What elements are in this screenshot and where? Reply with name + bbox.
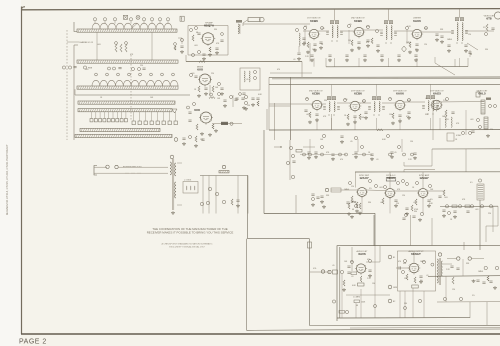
svg-text:68: 68: [352, 201, 354, 203]
svg-text:.001: .001: [191, 73, 195, 75]
svg-text:.01: .01: [357, 47, 360, 49]
svg-text:1MEG: 1MEG: [344, 189, 350, 191]
svg-text:.01: .01: [376, 159, 379, 161]
svg-text:6K6GT: 6K6GT: [411, 252, 421, 256]
V6 components: [309, 112, 311, 118]
svg-text:5%: 5%: [430, 199, 433, 201]
svg-text:6BQ7A: 6BQ7A: [204, 24, 215, 28]
wire bar1 to bar2: [96, 32, 98, 60]
RF plate coil label: [236, 20, 242, 23]
audio bottom circles row: [374, 305, 377, 308]
svg-text:68: 68: [352, 209, 354, 211]
svg-text:4.5: 4.5: [470, 182, 473, 184]
svg-text:5%: 5%: [415, 49, 418, 51]
input bus drop wires: [202, 176, 204, 214]
under-sync components middle: [351, 201, 353, 203]
antenna wire to T1: [118, 166, 168, 168]
V14 parts: [404, 260, 407, 263]
IF transformer T-B: [386, 26, 387, 40]
row2 left input wire: [269, 103, 286, 105]
audio inner box: [398, 251, 436, 291]
screen bus: [326, 66, 468, 68]
T1 secondary wires: [177, 162, 182, 164]
phase circle on coil row: [136, 15, 140, 19]
svg-text:PAGE 2: PAGE 2: [19, 339, 47, 346]
audio interior verticals: [341, 274, 343, 318]
row2 rail jogs: [289, 130, 291, 140]
svg-text:68: 68: [306, 98, 308, 100]
trimmer box on coil row: [124, 15, 128, 19]
T-C bottom caps: [447, 44, 450, 46]
V13 parts: [360, 276, 362, 282]
svg-text:.05: .05: [332, 265, 335, 267]
interstage parts row1: [376, 30, 379, 33]
coupling cap mid: [398, 266, 400, 269]
tube V3 6CB6: [309, 29, 318, 38]
svg-text:150: 150: [247, 105, 250, 107]
svg-text:6CB6: 6CB6: [312, 92, 320, 96]
V5 diamond: [402, 46, 407, 52]
svg-text:150: 150: [348, 40, 351, 42]
wire V5 plate to T-C: [422, 31, 454, 33]
audio output grid wire: [396, 267, 410, 269]
T2 designator: [438, 253, 441, 256]
dark value label 47K: [486, 98, 491, 100]
svg-text:6U8: 6U8: [194, 108, 200, 112]
decoupling row y154 parts: [303, 153, 306, 156]
V1 cathode components: [209, 47, 211, 52]
V5 components: [409, 42, 411, 48]
sync row left cluster: [325, 188, 328, 191]
antenna terminals: [106, 165, 109, 168]
svg-text:6BA6: 6BA6: [387, 176, 395, 180]
svg-text:120: 120: [424, 44, 427, 46]
RF input parts at tuner edge: [181, 39, 184, 42]
edge component at return rail: [308, 242, 312, 248]
input transformer T1 primary: [170, 162, 171, 175]
svg-text:.003: .003: [194, 45, 198, 47]
svg-text:470: 470: [277, 69, 280, 71]
speaker output wire: [447, 258, 457, 260]
svg-text:330: 330: [404, 303, 407, 305]
svg-text:1MEG: 1MEG: [478, 271, 484, 273]
svg-text:.05: .05: [350, 141, 353, 143]
row1 ground rail: [325, 58, 327, 67]
svg-text:5%: 5%: [420, 280, 423, 282]
B+ bus lower: [269, 83, 500, 85]
audio input wire: [310, 271, 330, 273]
row2 lower caps: [314, 151, 317, 153]
wire T-C to det: [465, 30, 494, 32]
svg-text:150: 150: [389, 114, 392, 116]
tube V6 6CB6: [312, 100, 321, 109]
mid horizontal bus: [264, 212, 375, 214]
bar2 lower components: [108, 67, 111, 70]
bus corner link: [301, 62, 303, 78]
sync row grid wires: [331, 189, 358, 191]
sync row left input parts: [311, 193, 314, 195]
antenna plug paddle: [248, 18, 260, 22]
osc top caps: [235, 97, 238, 99]
volume line down: [479, 200, 481, 250]
tube V1 6BQ7A: [202, 33, 214, 45]
tuner chassis bar 4: [78, 101, 175, 104]
audio feed verticals: [373, 215, 375, 246]
row1 stage B+ drops: [313, 58, 315, 67]
sync row plate drops: [361, 197, 363, 213]
agc line parts near x403-435: [405, 214, 408, 217]
osc fine tune cap: [242, 92, 245, 94]
tube V4 6CB6: [354, 27, 363, 36]
IF transformer T-C: [457, 23, 458, 41]
oscillator coil terminals: [95, 73, 98, 76]
det load column upper: [481, 100, 485, 114]
svg-text:6AG5: 6AG5: [433, 92, 441, 96]
svg-text:470: 470: [406, 116, 409, 118]
V3 screen cap: [319, 41, 322, 43]
svg-text:6CB6: 6CB6: [354, 19, 362, 23]
disc row caps: [442, 209, 445, 211]
tuner shield left rail: [73, 45, 75, 140]
fine tuning terminals: [62, 66, 65, 69]
osc plate feed resistor: [209, 97, 215, 99]
svg-text:1MEG: 1MEG: [406, 42, 412, 44]
svg-text:220: 220: [396, 203, 399, 205]
lightning arrestor box: [183, 182, 198, 194]
under row resistor cluster x348-363: [354, 201, 356, 203]
RF plate winding: [238, 24, 239, 34]
tube V13: [356, 264, 365, 273]
svg-text:6CB6: 6CB6: [310, 19, 318, 23]
tube V9 6AG5: [432, 100, 442, 110]
svg-text:120: 120: [468, 34, 471, 36]
audio right-edge wires: [443, 263, 452, 265]
tube V11: [386, 189, 395, 198]
1st IF input coil column: [299, 33, 300, 46]
svg-text:220: 220: [211, 73, 214, 75]
svg-text:4.5MC: 4.5MC: [456, 135, 462, 137]
antenna coil strip L1 terminals: [93, 18, 96, 21]
rotor wiper triangle: [172, 109, 177, 113]
wire bar3 junction rail: [75, 94, 190, 96]
sound section tick: [463, 242, 465, 250]
V1 grid components: [190, 29, 193, 32]
audio B+ wire: [428, 275, 500, 278]
fine tuning dashed link: [130, 55, 132, 120]
svg-text:VOL: VOL: [313, 268, 317, 270]
det components: [486, 24, 488, 31]
svg-text:B2: B2: [393, 301, 395, 303]
svg-text:330: 330: [214, 29, 217, 31]
IF transformer T-A: [332, 26, 333, 38]
wire paddle to RF plate: [243, 20, 248, 26]
V2b grid parts: [188, 111, 191, 113]
svg-text:B1: B1: [393, 257, 395, 259]
discriminator output row: [440, 205, 498, 207]
tuner dashed enclosure: [66, 30, 68, 140]
wire V4 plate to T-B: [364, 29, 383, 31]
link from row2 down: [295, 195, 297, 213]
svg-text:6U8: 6U8: [197, 68, 203, 72]
lower-left return rail: [247, 176, 249, 239]
tube V8 6AU6: [395, 100, 404, 109]
svg-text:220: 220: [140, 65, 143, 67]
agc components: [192, 54, 195, 57]
svg-text:120: 120: [404, 278, 407, 280]
svg-text:.003: .003: [306, 114, 310, 116]
wire V3 plate to T-A: [319, 30, 329, 32]
tube V10: [358, 188, 367, 197]
switch contact row dense: [90, 119, 93, 122]
frame border left: [21, 7, 23, 335]
svg-text:6AU6: 6AU6: [396, 92, 404, 96]
svg-text:330: 330: [414, 211, 417, 213]
return rail bottom bus: [310, 324, 500, 326]
mixer stage V2 6U8: [200, 74, 211, 85]
svg-text:68: 68: [196, 32, 198, 34]
wire T-A to V4 grid: [340, 30, 354, 32]
svg-text:6T8: 6T8: [486, 17, 492, 21]
audio bottom row parts: [332, 300, 335, 303]
svg-text:6CB6: 6CB6: [354, 92, 362, 96]
tube V14: [409, 263, 419, 273]
svg-text:1MEG: 1MEG: [442, 116, 448, 118]
svg-text:6AU6: 6AU6: [413, 19, 421, 23]
svg-text:12BH7: 12BH7: [419, 176, 429, 180]
V10 parts: [351, 196, 353, 202]
T1 lower winding: [175, 182, 176, 198]
video det tube: [494, 12, 500, 19]
AGC bus wire: [186, 61, 302, 63]
sound feed vertical: [374, 213, 376, 245]
svg-text:470: 470: [366, 42, 369, 44]
row1 grid return drops: [304, 30, 306, 44]
svg-text:.05: .05: [246, 79, 249, 81]
row2 tube rail wires: [286, 103, 312, 105]
wire V14 to box top: [413, 251, 415, 263]
V3 cathode parts: [307, 42, 309, 48]
svg-text:L.T. BOX: L.T. BOX: [184, 180, 192, 182]
volume control cluster: [321, 270, 324, 273]
audio bottom parts: [443, 297, 446, 300]
row2 transformer T-E: [374, 102, 375, 112]
input transformer T1 secondary: [175, 163, 176, 176]
row2 stage bus drops: [316, 118, 318, 130]
V2 components below: [198, 86, 200, 92]
return rail drop: [309, 239, 311, 326]
det load parts: [477, 119, 480, 122]
svg-text:120: 120: [452, 289, 455, 291]
wire coil to V3 grid: [303, 30, 309, 32]
return rail horizontal: [248, 238, 310, 240]
svg-text:.05: .05: [389, 98, 392, 100]
wire T-C to bus: [459, 9, 461, 18]
svg-text:GRN: GRN: [393, 287, 398, 289]
bus diagonal jog: [435, 63, 455, 75]
oscillator coil strip L2: [92, 80, 178, 86]
svg-text:.01: .01: [426, 275, 429, 277]
oscillator coil box: [240, 68, 260, 90]
V9 peaking coils: [445, 117, 446, 127]
audio bottom verticals: [351, 247, 353, 271]
V7 components: [347, 114, 349, 120]
second bottom bus: [247, 329, 500, 330]
row2 transformer B+ drops: [331, 85, 333, 101]
V8 components: [392, 113, 394, 119]
speaker parts: [457, 257, 460, 260]
svg-text:A CHECKPOINT STANDARD NOTAT: A CHECKPOINT STANDARD NOTATION SCHEMATIC: [162, 243, 213, 246]
sync row under components: [348, 203, 350, 209]
volume pot line: [339, 247, 341, 318]
RF amplifier stage box: [188, 26, 228, 56]
svg-text:120: 120: [402, 195, 405, 197]
svg-text:.003: .003: [379, 187, 383, 189]
wire T-B to V5 grid: [394, 30, 412, 32]
svg-text:5%: 5%: [483, 27, 486, 29]
wire plate line to mixer: [243, 23, 310, 25]
top right detail wires: [469, 50, 471, 57]
wire osc to IF link: [274, 103, 276, 140]
frame border bottom: [21, 333, 500, 335]
V4 components: [351, 40, 353, 46]
row2 under components: [322, 134, 325, 137]
antenna coil strip L1: [92, 23, 172, 29]
row2 transformer T-F: [428, 101, 429, 111]
converter grid coil at tuner edge: [180, 16, 184, 21]
det diagonal wire: [467, 43, 478, 50]
svg-text:.001: .001: [85, 69, 89, 71]
T1 ground: [172, 211, 174, 212]
antenna lead wires: [94, 166, 107, 168]
svg-text:.003: .003: [445, 119, 449, 121]
tuner chassis bar 3: [77, 86, 178, 89]
osc bottom cluster: [182, 137, 185, 139]
row1 bottom caps left: [435, 33, 438, 35]
svg-text:150: 150: [372, 283, 375, 285]
det plate resistor: [476, 92, 480, 97]
svg-text:.001: .001: [321, 28, 325, 30]
V12 parts: [406, 183, 409, 186]
row2 plate rail: [269, 129, 500, 131]
switch contact row spaced: [132, 121, 135, 125]
input network bus: [200, 175, 248, 177]
wire T-A to bus: [334, 9, 336, 20]
third bottom bus: [350, 326, 500, 329]
osc adjust line: [212, 123, 242, 125]
sync row top rail: [404, 169, 435, 171]
disc left parts: [438, 195, 441, 197]
terminal circles column: [388, 255, 392, 259]
tuner chassis bar 7: [75, 134, 172, 137]
input network components: [222, 165, 225, 168]
trap box 4.5MC: [447, 133, 454, 141]
bar1 left tab: [74, 22, 77, 32]
row1 under-bus components: [310, 54, 313, 56]
coil row diagonal tap: [131, 23, 138, 29]
tuner interstage resistors: [115, 44, 117, 52]
audio box bottom: [337, 317, 470, 319]
svg-text:330: 330: [485, 49, 488, 51]
wire T-D down: [331, 114, 333, 130]
svg-text:.003: .003: [444, 197, 448, 199]
svg-text:.001: .001: [475, 209, 479, 211]
svg-text:EXCLUSIVITY SIGN-ALIGN JAL: EXCLUSIVITY SIGN-ALIGN JAL 1957: [169, 245, 205, 248]
svg-text:.001: .001: [470, 119, 474, 121]
audio box outline: [337, 245, 500, 321]
svg-text:.01: .01: [293, 59, 296, 61]
svg-text:220: 220: [362, 101, 365, 103]
sound IF feed step: [404, 165, 432, 167]
row2 lower circles: [321, 146, 324, 149]
sound takeoff trap components: [289, 140, 291, 180]
tuner chassis bar 1: [77, 29, 177, 32]
svg-text:12AU7: 12AU7: [359, 176, 369, 180]
antenna terminal bracket: [94, 166, 97, 176]
B+ bus upper pair: [269, 76, 500, 78]
svg-text:RECEIVER MAKES IT POSSIBLE: RECEIVER MAKES IT POSSIBLE TO BRING YOU …: [147, 230, 234, 234]
svg-text:5%: 5%: [472, 295, 475, 297]
decoupling row y154 wires: [309, 139, 311, 152]
svg-text:.05: .05: [413, 202, 416, 204]
row2 input link: [263, 130, 265, 214]
agc bus components: [359, 203, 361, 209]
output transformer T2: [437, 259, 438, 283]
svg-text:220: 220: [303, 42, 306, 44]
svg-text:MAGNAVOX CT214, CT215, CT-216,: MAGNAVOX CT214, CT215, CT-216, CT221 PHO…: [5, 144, 9, 215]
quad coil 4.5mc: [477, 184, 484, 200]
det to output wire: [366, 261, 380, 263]
svg-text:.01: .01: [425, 98, 428, 100]
disc right steps: [486, 206, 498, 242]
sound IF feed drop: [465, 149, 467, 172]
svg-text:470: 470: [398, 261, 401, 263]
tuner chassis bar 6: [80, 128, 160, 131]
svg-text:220: 220: [490, 129, 493, 131]
svg-text:.001: .001: [344, 99, 348, 101]
svg-text:1MEG: 1MEG: [420, 261, 426, 263]
svg-text:150: 150: [410, 141, 413, 143]
T1 designator: [170, 155, 174, 159]
svg-text:.003: .003: [97, 44, 101, 46]
svg-text:5%: 5%: [369, 188, 372, 190]
row2 transformer T-D: [329, 102, 330, 112]
tuner chassis bar 5: [78, 109, 172, 112]
det area verticals: [432, 100, 434, 140]
V1 inner caps: [220, 39, 223, 41]
tuner output terminal: [174, 138, 178, 142]
osc to IF vertical: [266, 109, 268, 130]
svg-text:120: 120: [351, 186, 354, 188]
frame border top: [22, 9, 500, 10]
svg-text:.01: .01: [351, 276, 354, 278]
tuner chassis bar 2: [77, 60, 178, 63]
converter extra parts: [218, 93, 221, 96]
V9 parts: [445, 110, 447, 116]
svg-text:68: 68: [356, 305, 358, 307]
agc resistor to ground: [356, 202, 358, 208]
tube V5 6AU6: [412, 29, 421, 38]
svg-text:330: 330: [324, 100, 327, 102]
svg-text:CHANNELS 2-13: CHANNELS 2-13: [79, 41, 93, 44]
svg-text:470: 470: [367, 259, 370, 261]
svg-text:1.5 MEG: 1.5 MEG: [353, 297, 361, 299]
svg-text:.001: .001: [380, 202, 384, 204]
svg-text:1MEG: 1MEG: [447, 39, 453, 41]
svg-text:6AV6: 6AV6: [358, 252, 366, 256]
svg-text:68: 68: [470, 54, 472, 56]
V2 grid cap: [194, 75, 197, 77]
svg-text:150: 150: [350, 261, 353, 263]
